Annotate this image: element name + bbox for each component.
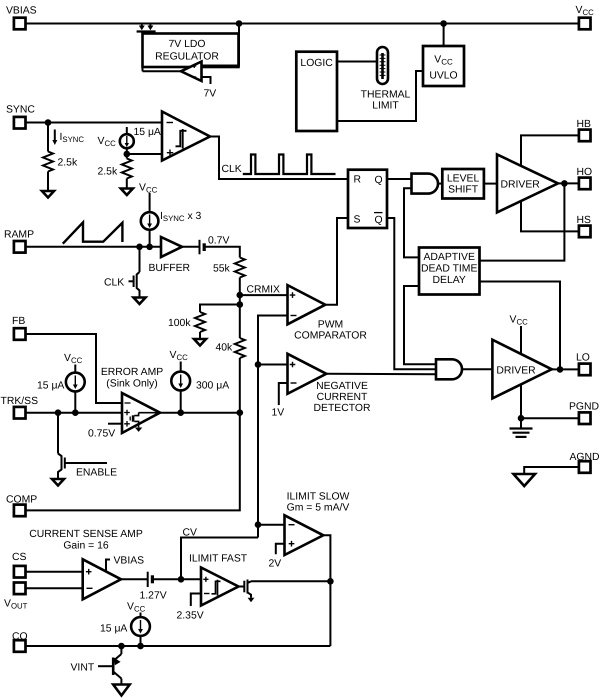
wire cap to ILIMIT FAST plus [152, 578, 201, 580]
wire COMP to error amp output [26, 413, 240, 511]
pin TRK/SS [1, 396, 39, 419]
svg-text:1.27V: 1.27V [140, 591, 167, 602]
resistor 2.5k sync [43, 123, 78, 191]
node junction CV-NCD plus [255, 361, 262, 368]
ground power earth [510, 418, 533, 437]
label 2V reference stub [269, 544, 285, 570]
svg-text:R: R [354, 175, 362, 186]
wire UVLO to LOGIC [337, 71, 423, 121]
wire AND1 output [439, 183, 443, 185]
ground 100k [194, 339, 206, 346]
svg-text:VBIAS: VBIAS [114, 556, 145, 567]
wire CV vertical [181, 538, 258, 580]
node junction 100k tap [237, 301, 244, 308]
node junction PGND [518, 415, 525, 422]
svg-text:CURRENT: CURRENT [317, 392, 368, 403]
pin VOUT [4, 583, 28, 611]
svg-text:CLK: CLK [104, 278, 124, 289]
svg-text:2.35V: 2.35V [177, 611, 204, 622]
svg-text:(Sink Only): (Sink Only) [106, 379, 157, 390]
svg-text:DEAD TIME: DEAD TIME [421, 264, 477, 275]
wire CLK from comparator to flip-flop R [210, 137, 348, 180]
pin AGND [570, 452, 600, 473]
ground VINT triangle [113, 685, 130, 696]
wire LDO 7V ref stub [202, 77, 211, 84]
svg-text:ADAPTIVE: ADAPTIVE [424, 252, 475, 263]
wire HO node to ADTD [480, 183, 565, 260]
wire cap to 55k node [204, 247, 240, 258]
current source 15uA sync [120, 127, 161, 154]
svg-text:7V: 7V [204, 89, 217, 100]
svg-text:ENABLE: ENABLE [76, 468, 117, 479]
node junction CV-ilimit slow [255, 521, 262, 528]
pin PGND [569, 402, 599, 425]
wire AND1 to ADTD [404, 188, 419, 257]
node junction output-300uA [177, 409, 184, 416]
svg-text:S: S [354, 215, 361, 226]
ground CLK FET [134, 298, 146, 305]
wire AND2 output [462, 368, 492, 370]
wire RAMP line [26, 246, 162, 248]
driver low side [492, 340, 551, 399]
pin CO [12, 632, 28, 652]
svg-text:CRMIX: CRMIX [247, 285, 281, 296]
wire tap to 100k [200, 295, 240, 312]
op-amp LDO error amplifier [181, 62, 202, 82]
and-gate AND2 low side [436, 359, 462, 379]
svg-text:BUFFER: BUFFER [149, 263, 191, 274]
label VBIAS supply stub [106, 556, 144, 572]
svg-text:RAMP: RAMP [4, 230, 34, 241]
wire LO driver output [552, 368, 579, 370]
node junction output-40k [237, 409, 244, 416]
svg-text:THERMAL: THERMAL [361, 90, 411, 101]
wire error amp output [160, 412, 240, 414]
svg-text:Q: Q [375, 215, 383, 226]
wire AGND [524, 467, 579, 473]
node junction LO [557, 366, 564, 373]
node junction fast-slow [327, 578, 334, 585]
svg-text:40k: 40k [216, 343, 234, 354]
wire UVLO top stub [443, 24, 445, 47]
svg-text:CLK: CLK [222, 164, 242, 175]
svg-text:CURRENT SENSE AMP: CURRENT SENSE AMP [29, 529, 143, 540]
svg-text:15 μA: 15 μA [100, 624, 127, 635]
wire to comparator plus input [127, 153, 162, 155]
wire LOGIC to thermal limit [337, 61, 377, 63]
comparator sync schmitt [162, 112, 210, 161]
svg-text:CV: CV [183, 528, 198, 539]
flip-flop RS latch [348, 170, 387, 228]
svg-text:SHIFT: SHIFT [448, 185, 479, 196]
label 2.35V reference stub [177, 594, 204, 622]
current source 15uA co [100, 613, 150, 647]
wire Q to AND1 [387, 178, 412, 180]
transistor VINT PNP [71, 646, 122, 684]
svg-text:COMPARATOR: COMPARATOR [294, 331, 367, 342]
driver high side [497, 154, 558, 212]
svg-text:ERROR AMP: ERROR AMP [101, 367, 163, 378]
wire CS to amp plus [26, 571, 83, 573]
label current sense amp title [29, 529, 143, 552]
capacitor 1.27V offset [140, 572, 167, 602]
op-amp error amplifier [122, 393, 160, 433]
transistor ENABLE FET [58, 413, 117, 479]
resistor 100k [168, 312, 205, 339]
wire fast FET drain to node [251, 580, 330, 582]
svg-text:Q: Q [375, 175, 383, 186]
svg-text:DETECTOR: DETECTOR [314, 403, 371, 414]
node junction CO-15uA [137, 643, 144, 650]
wire TRK/SS to error amp plus [26, 412, 123, 414]
resistor 2.5k threshold [98, 154, 132, 188]
ground sync resistor [42, 191, 54, 198]
wire HB to driver top [521, 135, 579, 166]
resistor 40k [216, 305, 245, 413]
current source ISYNC x 3 [141, 193, 202, 247]
svg-text:ILIMIT SLOW: ILIMIT SLOW [287, 492, 350, 503]
node junction HO [561, 180, 568, 187]
ground AGND triangle [514, 474, 536, 486]
waveform clock pulses [243, 155, 336, 175]
svg-text:300 μA: 300 μA [196, 381, 229, 392]
op-amp negative current detector [288, 354, 371, 414]
svg-text:2V: 2V [269, 559, 282, 570]
capacitor 0.7V offset [200, 236, 230, 255]
pin HO [577, 167, 593, 189]
svg-text:FB: FB [12, 316, 25, 327]
label ILIMIT SLOW title [287, 492, 350, 514]
svg-text:VBIAS: VBIAS [6, 6, 37, 17]
node junction ramp-isync3 [146, 244, 153, 251]
and-gate AND1 high side [412, 174, 439, 194]
wire PWM output to flip-flop S [325, 218, 348, 305]
svg-text:100k: 100k [168, 318, 191, 329]
svg-text:TRK/SS: TRK/SS [1, 396, 39, 407]
wire buffer to cap [182, 246, 200, 248]
pin COMP [6, 495, 37, 517]
svg-text:LEVEL: LEVEL [447, 174, 480, 185]
wire driver output to HO [558, 182, 579, 184]
wire CRMIX to PWM plus [240, 294, 288, 296]
transistor ILIMIT FAST pulldown FET [239, 580, 255, 603]
svg-text:2.5k: 2.5k [98, 167, 118, 178]
svg-text:LIMIT: LIMIT [372, 101, 399, 112]
svg-text:0.7V: 0.7V [208, 236, 229, 247]
box VCC UVLO [423, 46, 464, 86]
label 1V reference stub [272, 383, 288, 419]
box 7V LDO REGULATOR [143, 34, 239, 68]
svg-text:0.75V: 0.75V [88, 429, 115, 440]
pin LO [576, 353, 591, 376]
wire driver bottom to HS [521, 201, 579, 232]
svg-text:REGULATOR: REGULATOR [155, 52, 219, 63]
wire FB to error amp minus [26, 334, 123, 403]
node junction SYNC-resistor [45, 119, 52, 126]
pin VCC top right [576, 5, 595, 29]
svg-text:SYNC: SYNC [6, 105, 35, 116]
transistor CLK discharge FET [104, 247, 140, 297]
op-amp ILIMIT SLOW [285, 515, 324, 555]
pin RAMP [4, 230, 34, 253]
node junction rail-LDO sense [236, 20, 243, 27]
svg-text:LOGIC: LOGIC [300, 58, 333, 69]
svg-text:LO: LO [576, 353, 590, 364]
pin FB [12, 316, 26, 340]
ground ENABLE FET [52, 479, 64, 486]
wire amp output to cap [121, 578, 148, 580]
svg-text:CS: CS [12, 552, 27, 563]
box adaptive dead time delay [419, 248, 480, 295]
wire LDO sense input [202, 24, 240, 66]
wire ADTD to AND2 top input [404, 286, 436, 364]
svg-text:15 μA: 15 μA [134, 127, 161, 138]
svg-text:Gm = 5 mA/V: Gm = 5 mA/V [287, 503, 350, 514]
box LOGIC [296, 52, 337, 131]
resistor 55k [213, 258, 245, 296]
node junction CV-cap [178, 576, 185, 583]
op-amp current sense amplifier [83, 559, 121, 599]
pin VBIAS [6, 6, 37, 30]
wire PWM minus to CV rail [258, 316, 288, 538]
svg-text:DRIVER: DRIVER [496, 365, 536, 376]
wire LDO amp output [143, 70, 182, 72]
svg-text:15 μA: 15 μA [37, 381, 64, 392]
node junction CO-vint [118, 643, 125, 650]
transistor LDO pass FET [137, 24, 156, 32]
svg-text:PWM: PWM [318, 320, 343, 331]
pin HS [577, 215, 592, 237]
wire Qbar to AND2 [387, 218, 436, 369]
wire SYNC line [26, 122, 163, 124]
pin HB [577, 119, 592, 141]
thermal limit thermometer [361, 47, 411, 112]
pin SYNC [6, 105, 35, 129]
pin CS [12, 552, 27, 578]
svg-text:7V LDO: 7V LDO [169, 39, 206, 50]
wire level shift to driver [484, 183, 497, 185]
svg-text:NEGATIVE: NEGATIVE [316, 381, 368, 392]
ground threshold resistor [121, 189, 133, 196]
wire CO line [26, 645, 331, 647]
wire VOUT to amp minus [26, 587, 83, 589]
node junction trkss-enable [55, 409, 62, 416]
op-amp PWM comparator [288, 285, 368, 341]
box LEVEL SHIFT [442, 169, 484, 199]
node junction CRMIX [237, 292, 244, 299]
svg-text:1V: 1V [272, 408, 285, 419]
wire LDO feedback gate [142, 32, 144, 72]
node junction rail-UVLO [440, 20, 447, 27]
current source 15uA trkss [37, 365, 85, 413]
node junction trkss-15uA [72, 409, 79, 416]
svg-text:Gain = 16: Gain = 16 [63, 541, 109, 552]
wire LO driver bottom to PGND [521, 385, 579, 418]
svg-text:55k: 55k [213, 264, 231, 275]
svg-text:PGND: PGND [569, 402, 599, 413]
wire VCC to LO driver [520, 326, 522, 354]
wire ILIMIT SLOW output [323, 535, 330, 646]
comparator ILIMIT FAST [201, 568, 239, 606]
wire ADTD to LO node [480, 282, 561, 370]
node junction ramp-clkfet [136, 244, 143, 251]
label ISYNC current arrow [52, 130, 84, 146]
waveform sawtooth ramp [63, 222, 123, 243]
svg-text:DRIVER: DRIVER [501, 180, 541, 191]
wire VBIAS rail [26, 23, 580, 25]
buffer amplifier [149, 237, 191, 274]
svg-text:UVLO: UVLO [429, 71, 457, 82]
wire to ILIMIT SLOW minus [258, 524, 285, 526]
label 0.75V reference stub [88, 424, 122, 440]
current source 300uA [171, 362, 229, 413]
node junction 15uA-2.5k [124, 151, 131, 158]
wire NCD output to AND2 [326, 373, 436, 376]
wire NCD plus input [258, 364, 288, 366]
svg-text:2.5k: 2.5k [58, 158, 78, 169]
svg-text:ILIMIT FAST: ILIMIT FAST [189, 554, 248, 565]
svg-text:DELAY: DELAY [433, 275, 466, 286]
label error amp title [101, 367, 163, 390]
svg-text:VINT: VINT [71, 663, 95, 674]
